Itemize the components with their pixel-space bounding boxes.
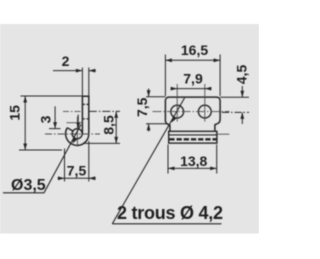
neck sides [170,124,215,131]
svg-text:4,5: 4,5 [234,65,250,85]
curl band hidden slit (dashed) [169,138,217,140]
dimension 7,9 [171,88,212,90]
hidden hole lines in plate [82,104,88,118]
svg-text:3: 3 [38,115,54,123]
vertical centerline left hole [176,84,178,122]
plate outline front view [165,97,220,125]
curl outer arc [66,128,89,146]
svg-text:8,5: 8,5 [101,115,117,135]
dimension 2 (plate thickness) [53,68,96,96]
svg-text:2: 2 [62,53,70,69]
curl band front view [169,131,217,143]
bend line [67,122,83,124]
left hole [171,105,184,118]
curl horizontal centerline [45,133,100,135]
vertical centerline right hole [204,84,206,122]
svg-text:16,5: 16,5 [181,42,208,58]
curl centerline extending right [216,133,230,135]
svg-text:7,5: 7,5 [67,163,87,179]
leader Ø3,5 [3,125,81,193]
right hole [198,105,211,118]
svg-text:Ø3,5: Ø3,5 [11,177,46,194]
svg-text:7,5: 7,5 [134,97,150,117]
dimension 7,5 (bottom of side view) [58,141,96,182]
dimension 8,5 (right of side view) [84,111,120,143]
sheet end cut line [67,128,73,131]
hole centerline side view [63,110,82,112]
dimension 13,8 [168,145,217,174]
dimension 7,5 (left of front view) [146,89,167,132]
svg-text:7,9: 7,9 [183,71,203,87]
curl vertical centerline [76,117,78,147]
horizontal hole centerline front view [153,111,230,113]
leader 2 trous Ø4,2 [112,98,221,224]
dimension 16,5 [165,55,220,97]
svg-text:13,8: 13,8 [180,153,207,169]
curl band mid line [169,134,217,136]
svg-text:2 trous Ø 4,2: 2 trous Ø 4,2 [117,203,223,223]
drawing panel background [0,24,259,234]
dimension 4,5 (right) [220,86,249,124]
curl inner circle (rolled hinge, bore Ø3,5) [72,129,82,139]
plate outline side view [82,96,88,134]
dimension 15 (left height) [19,96,82,150]
dimension 3 [49,106,78,128]
svg-text:15: 15 [7,105,23,121]
